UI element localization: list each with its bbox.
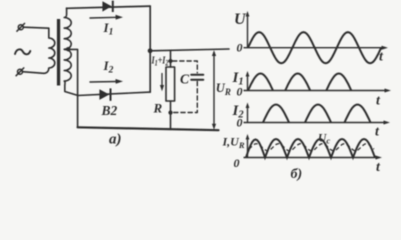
svg-text:R: R [153,101,163,116]
junction dot top (C branch) [168,59,172,63]
waveform U axes [244,11,389,50]
current arrow through R [161,74,163,88]
svg-text:U: U [234,11,247,28]
wire R top lead [170,50,172,67]
terminal T1 [17,23,25,31]
svg-text:C: C [180,72,190,87]
dashed C branch bottom [173,82,198,113]
AC source symbol [15,49,30,54]
center tap wire [65,49,78,127]
waveform I,UR axes [244,134,383,160]
current arrow I2 [90,81,117,84]
rectified current humps [246,139,375,158]
wire top rail [67,6,151,8]
pulses I1 [248,74,351,91]
wire R bottom lead [170,101,172,129]
wire input bottom [23,72,44,74]
wire load top rail [150,49,229,51]
transformer primary winding [44,28,55,73]
junction dot bottom (C branch) [168,111,172,115]
diode V1 [102,1,113,12]
wire V2 branch [78,92,151,95]
node I1+I2 junction dot [148,48,153,53]
dashed capacitor voltage Uc [249,144,374,151]
dashed C branch top [173,61,198,73]
waveform I,UR labels 0,t [234,156,382,175]
transformer secondary winding [64,8,77,95]
voltage arrow U_R [213,55,215,126]
transformer core [57,19,60,86]
wire load bottom rail [78,127,219,130]
capacitor C plates [191,75,203,80]
resistor R [166,67,175,101]
svg-text:а): а) [109,132,122,148]
current arrow I1 [90,16,117,19]
waveform I1 axes [244,71,392,93]
sine curve U [248,32,381,63]
waveform U labels 0,t [237,41,385,65]
wire input top [23,27,49,28]
svg-text:0: 0 [237,41,243,55]
terminal T2 [16,68,24,76]
waveform I2 axes [244,103,391,125]
svg-text:б): б) [291,167,303,182]
waveform I1 labels 0,t [237,85,382,109]
svg-text:0: 0 [234,156,240,170]
waveform I2 labels 0,t [237,116,381,140]
center tap junction dot [66,47,70,51]
diode V2 [99,88,111,100]
svg-text:В2: В2 [101,103,118,118]
wire right vertical [149,6,151,92]
pulses I2 [263,105,371,123]
